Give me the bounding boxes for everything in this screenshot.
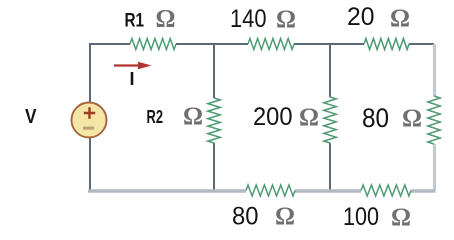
svg-text:Ω: Ω <box>299 104 319 131</box>
svg-text:R2: R2 <box>147 107 164 127</box>
voltage source minus sign <box>83 127 94 130</box>
svg-text:80: 80 <box>232 203 259 231</box>
svg-text:V: V <box>25 106 37 128</box>
svg-text:80: 80 <box>362 103 389 133</box>
svg-text:I: I <box>130 69 135 89</box>
svg-text:100: 100 <box>343 203 379 231</box>
resistor R2 <box>208 98 220 143</box>
resistor 140 ohm <box>248 39 294 50</box>
wire top horizontal <box>90 43 434 45</box>
svg-text:200: 200 <box>253 103 293 131</box>
wire right vertical <box>433 44 436 190</box>
resistor 80 ohm bottom <box>246 185 295 196</box>
voltage source V <box>72 103 107 138</box>
svg-text:Ω: Ω <box>275 203 295 230</box>
current arrow I <box>114 64 141 66</box>
svg-text:Ω: Ω <box>391 204 411 231</box>
wire left vertical <box>89 43 91 190</box>
resistor 20 ohm <box>364 39 409 50</box>
resistor 100 ohm <box>361 185 411 196</box>
svg-text:Ω: Ω <box>156 6 176 33</box>
wire middle vertical (node between R1 and 140) <box>213 44 215 190</box>
resistor 80 ohm right column <box>428 96 440 144</box>
resistor R1 <box>130 39 176 50</box>
wire vertical (node between 140 and 20) <box>329 44 331 190</box>
svg-text:Ω: Ω <box>276 6 296 33</box>
voltage source plus sign <box>84 107 95 118</box>
svg-text:20: 20 <box>347 3 375 31</box>
svg-text:Ω: Ω <box>402 105 422 132</box>
wire bottom horizontal <box>88 189 436 193</box>
svg-text:Ω: Ω <box>183 103 203 130</box>
svg-text:Ω: Ω <box>390 5 410 32</box>
svg-text:140: 140 <box>230 5 267 33</box>
resistor 200 ohm <box>324 97 336 143</box>
svg-text:R1: R1 <box>125 11 145 32</box>
